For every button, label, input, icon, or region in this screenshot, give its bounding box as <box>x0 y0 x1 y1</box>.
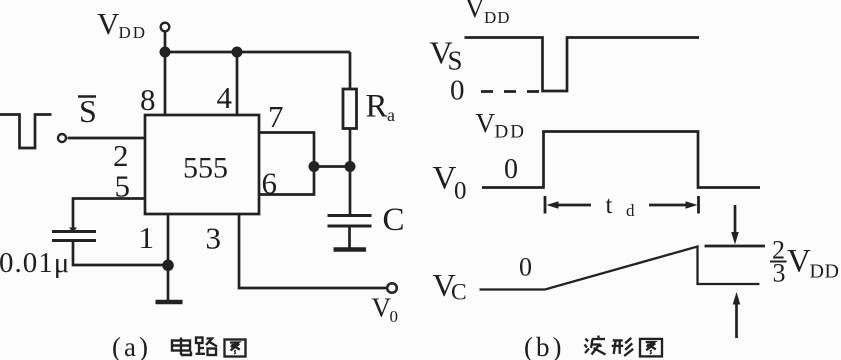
node VDD terminal <box>161 23 170 32</box>
dimension td right tick <box>697 196 700 214</box>
caption glyph dian <box>172 338 191 356</box>
ground below pin 1 <box>156 300 183 305</box>
svg-text:S: S <box>79 93 97 129</box>
svg-text:0: 0 <box>390 307 399 326</box>
svg-text:V: V <box>787 244 811 280</box>
junction at VDD rail <box>160 47 171 58</box>
svg-text:(b): (b) <box>524 332 564 360</box>
svg-text:555: 555 <box>183 152 228 185</box>
wire pin 6 <box>259 167 314 195</box>
svg-text:0: 0 <box>504 154 518 185</box>
capacitor 0.01u <box>52 232 96 241</box>
caption glyph lu <box>196 338 218 356</box>
node V0 label <box>372 293 399 327</box>
wire input pulse symbol <box>0 115 52 149</box>
node S input terminal <box>58 134 66 142</box>
wire capacitor C to ground <box>348 226 351 249</box>
wire resistor to capacitor C <box>349 129 352 216</box>
two-thirds VDD label <box>787 244 839 283</box>
wire capacitor 0.01u to pin 1 node <box>73 241 168 266</box>
caption glyph tu <box>225 340 246 357</box>
svg-text:V: V <box>372 293 392 323</box>
svg-text:0: 0 <box>519 253 532 282</box>
resistor Ra <box>343 89 357 129</box>
svg-text:DD: DD <box>495 122 526 143</box>
svg-text:R: R <box>366 89 388 125</box>
op-amp U1 555 timer box <box>145 115 259 214</box>
wire VDD to pin 8 <box>164 32 167 115</box>
junction pin 1 node <box>162 260 174 272</box>
svg-text:4: 4 <box>217 80 233 115</box>
svg-text:d: d <box>626 201 635 220</box>
wire VDD rail to resistor <box>349 52 352 89</box>
waveform VS label <box>430 35 463 76</box>
wire VDD rail top <box>165 51 350 54</box>
svg-text:3: 3 <box>773 259 786 288</box>
two-thirds fraction <box>770 236 787 288</box>
dimension td left arrow <box>547 201 592 208</box>
svg-text:DD: DD <box>119 23 148 42</box>
junction pin 4 <box>232 47 243 58</box>
wire node to pins 6 7 <box>314 165 350 168</box>
wire pin 2 <box>68 137 146 140</box>
svg-text:7: 7 <box>268 99 284 134</box>
arrow up to lower line <box>733 292 741 338</box>
svg-text:0: 0 <box>454 178 467 205</box>
capacitor C <box>328 216 372 227</box>
caption glyph bo <box>585 336 606 355</box>
wire pin 4 <box>236 52 239 115</box>
svg-text:6: 6 <box>262 166 278 201</box>
svg-text:0.01μ: 0.01μ <box>0 247 70 279</box>
waveform V0 label <box>433 161 467 205</box>
junction resistor-capacitor node <box>345 161 356 172</box>
resistor Ra label <box>366 89 396 126</box>
waveform VC trace <box>480 247 760 290</box>
junction pins 6-7 <box>309 161 320 172</box>
svg-text:DD: DD <box>810 261 840 283</box>
svg-text:a: a <box>387 105 395 125</box>
svg-text:C: C <box>383 202 405 238</box>
ground below C <box>334 247 367 252</box>
wire pin 1 to ground <box>167 214 170 302</box>
svg-text:3: 3 <box>206 221 222 256</box>
svg-text:t: t <box>606 192 613 219</box>
dimension td label <box>606 192 636 220</box>
svg-text:(a): (a) <box>112 332 151 360</box>
wire pin 5 <box>73 199 145 232</box>
arrow down to upper line <box>731 205 739 245</box>
dimension td right arrow <box>649 201 698 208</box>
waveform V0 trace <box>482 132 760 188</box>
svg-text:5: 5 <box>115 169 131 204</box>
svg-text:8: 8 <box>140 82 156 117</box>
node V0 output terminal <box>387 283 397 293</box>
waveform V0 VDD label <box>476 108 526 143</box>
capacitor 0.01u tick <box>69 228 77 233</box>
reference line two-thirds VDD upper <box>705 245 766 248</box>
node S-bar label <box>78 93 97 129</box>
wire pin 3 output <box>239 214 387 288</box>
svg-text:V: V <box>97 6 120 41</box>
svg-text:DD: DD <box>484 8 511 27</box>
waveform VS VDD label <box>465 0 511 27</box>
dimension td left tick <box>544 196 547 214</box>
waveform VS trace <box>465 38 700 92</box>
waveform VC label <box>433 267 467 306</box>
waveform VS zero dashed line <box>481 90 539 93</box>
svg-text:V: V <box>465 0 485 23</box>
wire pin 7 <box>259 133 314 167</box>
caption glyph tu2 <box>640 339 662 357</box>
svg-text:C: C <box>451 280 467 306</box>
svg-text:1: 1 <box>139 220 155 255</box>
svg-text:0: 0 <box>450 74 465 106</box>
caption glyph xing <box>612 338 634 356</box>
svg-text:S: S <box>448 46 463 76</box>
svg-text:V: V <box>476 108 496 138</box>
svg-text:V: V <box>433 161 457 197</box>
node VDD label <box>97 6 147 42</box>
